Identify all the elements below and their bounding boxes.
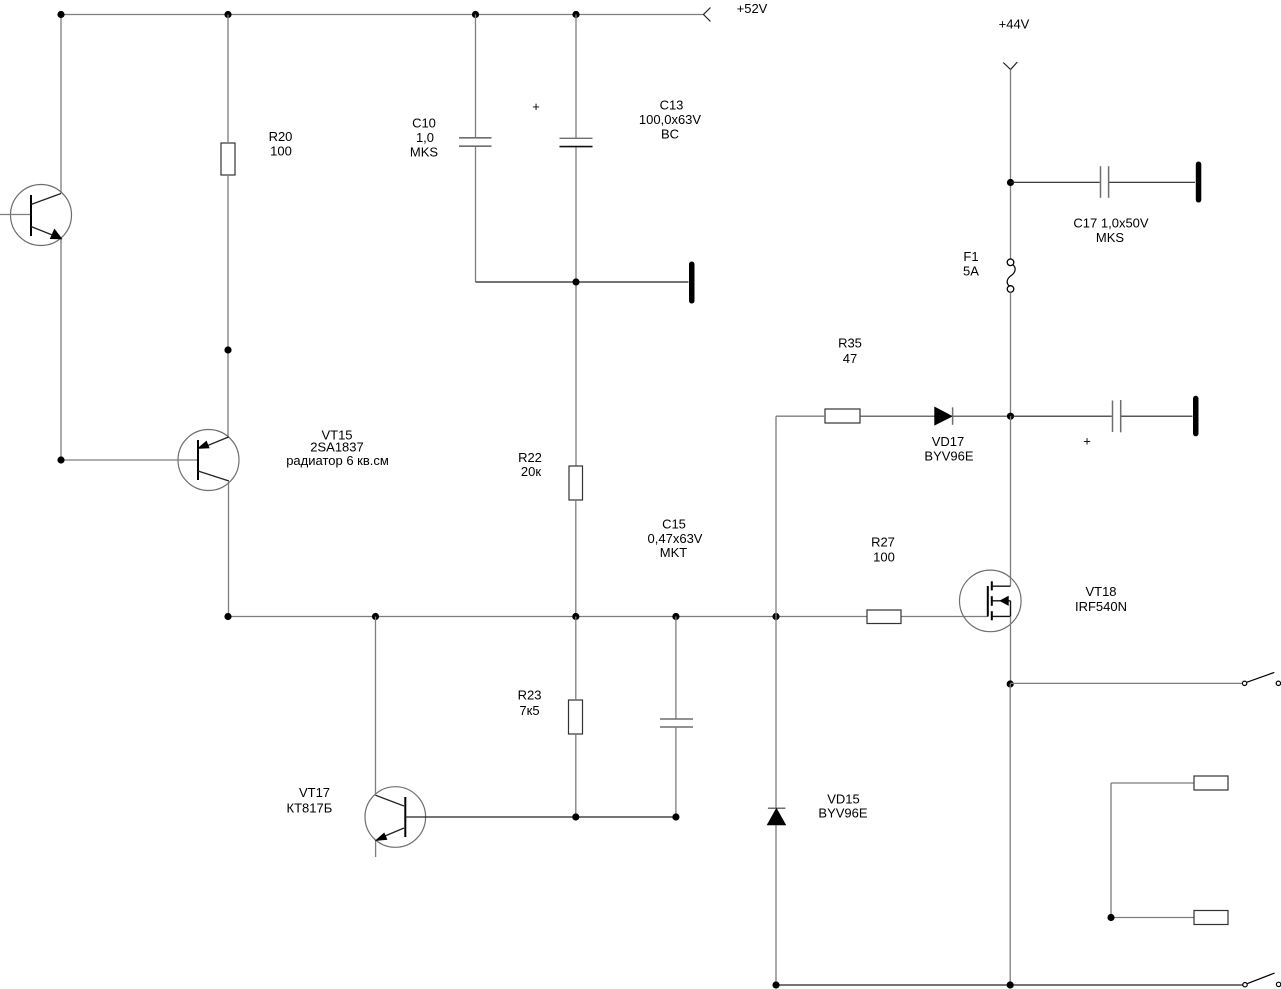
junction dot top rail x61 (57, 11, 64, 18)
wire bottom rail y985 (776, 984, 1243, 986)
svg-text:C15: C15 (662, 516, 686, 531)
resistor R20 (221, 143, 235, 175)
diode VD15 (768, 808, 786, 825)
svg-text:100,0x63V: 100,0x63V (639, 112, 701, 127)
capacitor C13 (polarized) (560, 15, 593, 467)
junction dot top rail x228 (224, 11, 231, 18)
capacitor C15 (660, 617, 693, 818)
wire source to switch SW1 (1010, 682, 1242, 684)
svg-text:MKS: MKS (1096, 230, 1125, 245)
transistor Q1 (top-left NPN) (0, 185, 72, 246)
svg-text:1,0: 1,0 (416, 130, 434, 145)
svg-text:R20: R20 (269, 129, 293, 144)
svg-text:R27: R27 (871, 534, 895, 549)
wire output loop bottom y917.5 (1111, 917, 1194, 919)
junction dot x228 y350 (224, 346, 231, 353)
wire left branch vertical x61 lower (60, 239, 62, 461)
transistor VT18 (MOSFET IRF540N) (960, 570, 1022, 632)
junction dot x576 y282 (572, 278, 579, 285)
svg-text:R22: R22 (518, 450, 542, 465)
transistor VT17 (NPN KT817B) (365, 787, 426, 857)
wire x776 to R35 (776, 415, 825, 417)
junction dot top rail x475 (472, 11, 479, 18)
svg-text:5A: 5A (963, 264, 979, 279)
wire R23 to base rail (575, 734, 577, 817)
junction dot x1010 y684 (1007, 680, 1014, 687)
capacitor C16 (polarized) (1011, 400, 1193, 432)
junction dot mid x676 (672, 613, 679, 620)
svg-text:MKT: MKT (660, 545, 688, 560)
wire x228 top-rail to R20 (227, 15, 229, 144)
svg-text:IRF540N: IRF540N (1075, 599, 1127, 614)
wire R35 to VD17 (860, 415, 935, 417)
svg-text:VT18: VT18 (1085, 584, 1116, 599)
junction dot top rail x576 (572, 11, 579, 18)
junction dot +44V rail y416 (1007, 413, 1014, 420)
wire output loop top y783 (1111, 782, 1194, 784)
junction dot mid x375 (372, 613, 379, 620)
resistor output top (1194, 776, 1228, 790)
svg-text:VD17: VD17 (932, 434, 965, 449)
wire feedback vertical x776 (775, 416, 777, 616)
junction dot +44V rail y182.5 (1007, 179, 1014, 186)
svg-text:+: + (532, 99, 540, 114)
junction dot base rail x576 (572, 813, 579, 820)
resistor output bottom (1194, 911, 1228, 925)
svg-text:BYV96E: BYV96E (818, 806, 867, 821)
resistor R22 (569, 466, 583, 500)
wire VT15 collector down to mid rail (228, 481, 230, 617)
svg-text:+52V: +52V (737, 1, 768, 16)
svg-text:7к5: 7к5 (519, 703, 539, 718)
wire +44V rail to VT18 drain (1010, 416, 1012, 586)
junction dot bottom x1010 (1007, 981, 1014, 988)
wire left branch vertical x61 upper (60, 15, 62, 194)
wire VT15 base from left branch (61, 459, 197, 461)
wire R22 to mid rail (575, 500, 577, 617)
svg-text:C17 1,0x50V: C17 1,0x50V (1073, 216, 1148, 231)
wire +44V rail upper (1010, 70, 1012, 260)
diode VD17 (935, 407, 953, 425)
ground G2 bar (1196, 162, 1202, 203)
wire mid rail to R23 (575, 617, 577, 701)
node +52V arrow (704, 8, 711, 22)
junction dot bottom x776 (772, 981, 779, 988)
junction dot mid x576 (572, 613, 579, 620)
wire +52V top rail (61, 14, 704, 16)
transistor VT15 (PNP 2SA1837) (178, 430, 239, 491)
wire VD17 to +44V rail (953, 415, 1011, 417)
svg-text:20к: 20к (521, 464, 541, 479)
wire ground run y282 (476, 281, 689, 283)
svg-text:радиатор 6 кв.см: радиатор 6 кв.см (286, 453, 389, 468)
resistor R27 (867, 610, 901, 624)
svg-text:R23: R23 (518, 687, 542, 702)
svg-text:47: 47 (843, 351, 857, 366)
svg-text:VT17: VT17 (299, 785, 330, 800)
wire output loop vertical x1111 (1110, 783, 1112, 918)
resistor R35 (825, 409, 860, 423)
ground G1 bar (689, 262, 695, 304)
svg-text:100: 100 (873, 549, 895, 564)
svg-text:100: 100 (270, 144, 292, 159)
capacitor C10 (459, 15, 492, 283)
fuse F1 (1007, 259, 1015, 292)
svg-text:+: + (1083, 434, 1091, 449)
wire VD15 to bottom rail (775, 825, 777, 985)
svg-text:VD15: VD15 (827, 792, 860, 807)
node +44V arrow (1003, 62, 1017, 70)
wire R20 to VT15 emitter (227, 175, 229, 437)
capacitor C17 (1011, 166, 1196, 198)
svg-text:C13: C13 (660, 98, 684, 113)
switch SW1 (1242, 672, 1280, 685)
wire VT18 source to bottom rail (1009, 684, 1011, 985)
switch SW2 (1243, 973, 1281, 987)
junction dot x61 y460 (57, 456, 64, 463)
wire mid rail down to VT17 collector (375, 617, 377, 796)
junction dot output loop (1107, 914, 1114, 921)
svg-text:КТ817Б: КТ817Б (287, 800, 333, 815)
svg-text:F1: F1 (963, 249, 978, 264)
wire F1 to VD17 node (1010, 292, 1012, 416)
wire VT17 base rail y817 (405, 816, 676, 818)
svg-text:0,47x63V: 0,47x63V (648, 531, 703, 546)
ground G3 bar (1193, 396, 1199, 437)
svg-text:BYV96E: BYV96E (924, 449, 973, 464)
svg-text:+44V: +44V (999, 17, 1030, 32)
junction dot base rail x676 (672, 813, 679, 820)
wire VT18 source down (1010, 616, 1012, 684)
wire mid rail y616.5 (228, 616, 867, 618)
wire x776 mid to VD15 (775, 617, 777, 809)
svg-text:MKS: MKS (410, 145, 439, 160)
svg-text:BC: BC (661, 127, 679, 142)
junction dot mid x776 (772, 613, 779, 620)
junction dot mid x228 (224, 613, 231, 620)
svg-text:C10: C10 (412, 116, 436, 131)
svg-text:R35: R35 (838, 335, 862, 350)
resistor R23 (569, 700, 583, 734)
